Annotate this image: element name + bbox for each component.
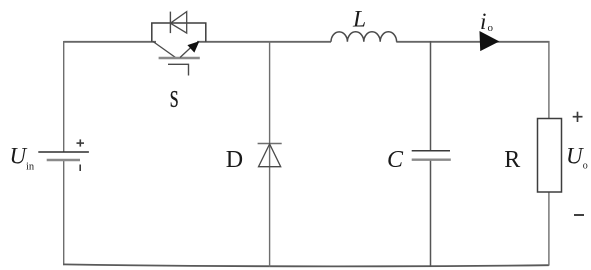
inductor L coil <box>331 32 397 42</box>
svg-text:D: D <box>226 147 243 173</box>
antiparallel diode triangle <box>170 12 186 33</box>
output plus sign <box>573 112 583 122</box>
svg-text:in: in <box>26 162 35 173</box>
transistor base bar <box>159 57 200 60</box>
current arrow i_o <box>480 32 498 50</box>
transistor collector slant <box>153 42 176 58</box>
wire bottom rail <box>63 264 549 266</box>
antiparallel diode cathode bar <box>169 12 171 33</box>
resistor R body <box>538 119 562 193</box>
svg-text:R: R <box>504 147 520 173</box>
wire capacitor branch upper <box>430 41 432 151</box>
battery source plate short <box>47 159 80 162</box>
diode D cathode bar <box>258 143 282 145</box>
wire diode branch <box>269 41 271 267</box>
svg-text:U: U <box>10 144 28 169</box>
capacitor C top plate <box>412 150 450 152</box>
switch S snubber box <box>152 23 206 42</box>
output minus sign <box>574 214 584 216</box>
wire top rail middle segment <box>197 41 331 43</box>
wire top rail left segment <box>64 41 156 43</box>
wire capacitor branch lower <box>430 160 432 267</box>
wire right branch lower <box>548 192 550 266</box>
svg-text:S: S <box>170 87 179 113</box>
transistor emitter arrowhead <box>188 42 198 52</box>
svg-text:i: i <box>480 9 486 34</box>
battery minus tick <box>79 165 81 172</box>
wire top rail right segment <box>396 41 549 43</box>
svg-text:C: C <box>387 147 404 173</box>
capacitor C bottom plate <box>412 158 451 160</box>
svg-text:o: o <box>488 22 494 34</box>
transistor emitter arrow line <box>180 45 194 58</box>
wire left branch lower <box>63 160 65 265</box>
svg-text:U: U <box>566 144 584 169</box>
wire left branch upper <box>63 41 65 152</box>
diode D triangle <box>259 144 281 167</box>
svg-text:L: L <box>352 7 366 33</box>
transistor gate lead <box>168 64 189 75</box>
battery source plate long <box>38 151 89 153</box>
battery plus sign <box>77 139 85 146</box>
wire right branch upper <box>548 41 550 119</box>
svg-text:o: o <box>583 161 588 172</box>
